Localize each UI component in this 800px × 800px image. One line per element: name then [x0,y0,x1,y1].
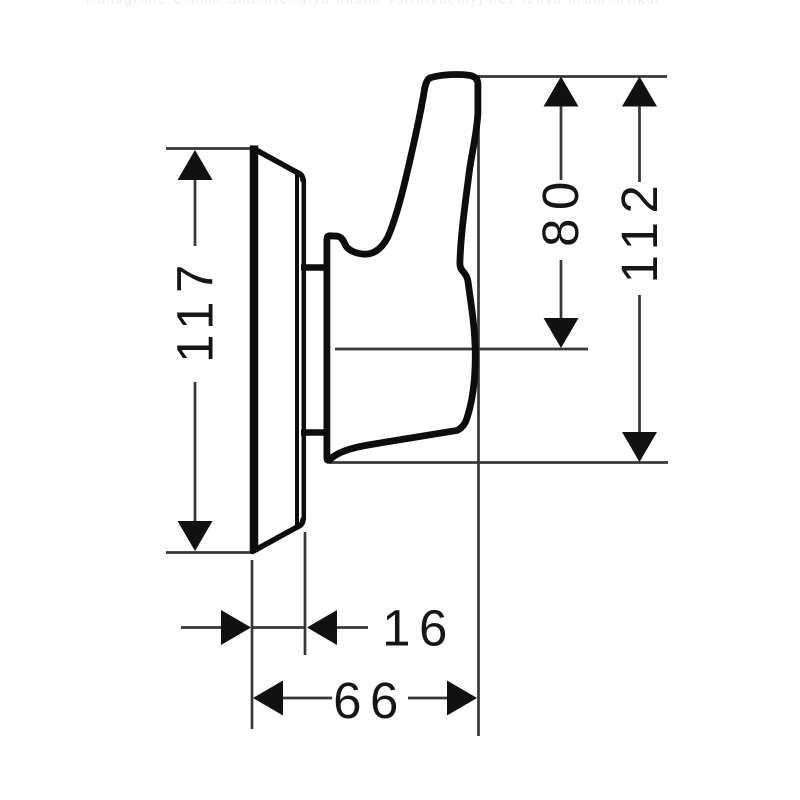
svg-text:16: 16 [382,600,456,657]
svg-text:66: 66 [333,672,407,729]
svg-text:112: 112 [611,177,668,284]
svg-text:80: 80 [532,173,589,247]
svg-text:117: 117 [167,256,224,363]
svg-text:Hansgrohe Cromo Smesitel dlya: Hansgrohe Cromo Smesitel dlya dusha vstr… [86,0,661,7]
